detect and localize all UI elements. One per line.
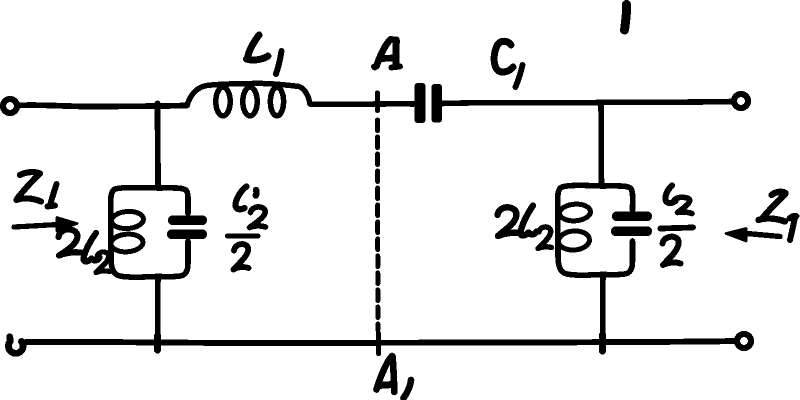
terminal bottom-left (open hook) bbox=[8, 337, 23, 354]
terminal top-right bbox=[734, 94, 748, 108]
wire bottom (left to right) bbox=[26, 341, 734, 343]
label A1 bottom bbox=[377, 356, 412, 398]
capacitor C1 bbox=[415, 83, 443, 123]
left tank: top stub wire bbox=[155, 104, 161, 189]
label 2L2 right bbox=[498, 206, 552, 249]
label 1 (figure number) bbox=[625, 5, 627, 31]
label Z1 left bbox=[17, 172, 57, 206]
label C2/2 left bbox=[228, 187, 266, 270]
arrow Z1 right bbox=[747, 234, 780, 237]
label A bbox=[374, 40, 401, 68]
arrow Z1 left bbox=[14, 225, 58, 228]
label 2L2 left bbox=[59, 229, 110, 272]
label Z1 right bbox=[759, 192, 797, 240]
wire top-left segment bbox=[18, 105, 187, 107]
wire top-middle segment bbox=[310, 101, 414, 107]
right tank: box outline bbox=[558, 185, 633, 275]
left tank: bottom stub wire bbox=[155, 277, 161, 344]
inductor L1 bbox=[187, 83, 310, 115]
junction blob right-bottom bbox=[599, 335, 606, 351]
right tank: capacitor C2/2 plates bbox=[611, 212, 652, 237]
wire top-right segment bbox=[442, 102, 731, 104]
right tank: top stub wire bbox=[598, 103, 604, 187]
right tank: inductor 2L2 loops bbox=[558, 203, 591, 251]
left tank: capacitor C2/2 plates bbox=[167, 216, 207, 240]
label C1 bbox=[494, 41, 522, 87]
label C2/2 right bbox=[661, 186, 694, 266]
left tank: inductor 2L2 loops bbox=[110, 210, 144, 252]
label L1 bbox=[247, 35, 282, 74]
terminal top-left bbox=[3, 99, 17, 113]
junction blob left-bottom bbox=[154, 336, 161, 350]
node A-A1 dashed line bbox=[375, 120, 380, 330]
right tank: bottom stub wire bbox=[600, 275, 606, 345]
left tank: box outline bbox=[111, 188, 188, 278]
terminal bottom-right bbox=[737, 334, 751, 348]
